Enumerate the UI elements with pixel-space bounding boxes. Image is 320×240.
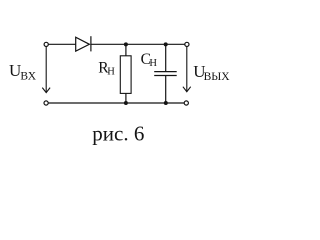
wire top: input terminal to diode anode (48, 43, 75, 45)
svg-text:рис. 6: рис. 6 (92, 122, 144, 146)
wire bottom rail (48, 102, 184, 104)
junction node: diode-resistor top (124, 42, 128, 46)
label Uвых (193, 62, 230, 83)
terminal circle output top (185, 42, 189, 46)
label Uвх (9, 61, 37, 83)
input voltage arrow Uвх shaft (45, 47, 47, 93)
label Cн (141, 51, 158, 69)
svg-text:Н: Н (107, 66, 115, 77)
wire: resistor branch lower (125, 93, 127, 103)
input voltage arrow Uвх head (42, 88, 50, 93)
output voltage arrow Uвых head (183, 87, 191, 92)
wire: capacitor branch upper (165, 44, 167, 71)
terminal circle output bottom (184, 101, 188, 105)
terminal circle input top (44, 42, 48, 46)
junction node: resistor bottom (124, 101, 128, 105)
diode VD (triangle) (76, 37, 90, 51)
terminal circle input bottom (44, 101, 48, 105)
svg-text:ВХ: ВХ (20, 71, 36, 83)
wire top: diode cathode to output terminal (91, 43, 185, 45)
label Rн (98, 60, 115, 78)
capacitor Cн bottom plate (154, 75, 177, 77)
resistor Rн body (120, 56, 131, 94)
wire: resistor branch upper (125, 44, 127, 56)
svg-text:Н: Н (149, 58, 157, 69)
output voltage arrow Uвых shaft (186, 47, 188, 92)
svg-text:ВЫХ: ВЫХ (204, 71, 231, 83)
junction node: capacitor bottom (164, 101, 168, 105)
wire: capacitor branch lower (165, 76, 167, 103)
junction node: capacitor top (164, 42, 168, 46)
diode VD cathode bar (90, 36, 92, 51)
capacitor Cн top plate (154, 71, 177, 73)
